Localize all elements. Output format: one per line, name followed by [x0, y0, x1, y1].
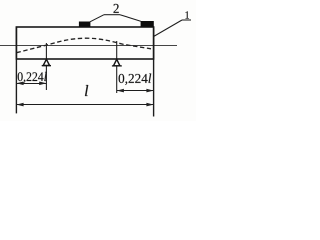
arrow right dim, right end — [146, 89, 153, 93]
dimension line left 0,224l — [16, 83, 46, 85]
gauge block 2 (left) — [79, 22, 91, 27]
right support vertical centerline — [116, 41, 118, 93]
support (right) ground line — [112, 65, 122, 67]
axis centerline — [0, 45, 177, 47]
arrow left dim, right end — [39, 82, 46, 86]
callout 2 underline — [104, 14, 120, 16]
dimension 0,224l (right) text — [119, 74, 152, 85]
sag curve (dashed deflection line) — [17, 38, 152, 53]
arrow l dim, left end — [16, 103, 23, 107]
dimension l (overall) label — [85, 85, 88, 96]
support (left) ground line — [42, 65, 51, 67]
callout 2 right leg — [120, 15, 141, 22]
callout 1 underline — [182, 19, 191, 21]
dimension line right 0,224l — [117, 90, 154, 92]
callout 1 leader — [154, 20, 182, 37]
right extension line (beam right edge extended) — [153, 27, 155, 117]
arrow l dim, right end — [146, 103, 153, 107]
gauge block 2 (right) — [141, 21, 154, 27]
callout 1 label — [185, 11, 189, 18]
arrow right dim, left end — [117, 89, 124, 93]
dimension line l overall — [16, 104, 153, 106]
left support vertical centerline — [45, 43, 47, 90]
left extension line (beam left edge extended) — [15, 27, 17, 114]
arrow left dim, left end — [16, 82, 23, 86]
support (left) triangle — [43, 59, 49, 65]
callout 2 label — [114, 4, 119, 13]
callout 2 left leg — [90, 15, 104, 22]
support (right) triangle — [114, 59, 120, 66]
dimension 0,224l (left) text — [18, 72, 47, 83]
beam 1 (scale body rectangle) — [16, 27, 153, 59]
